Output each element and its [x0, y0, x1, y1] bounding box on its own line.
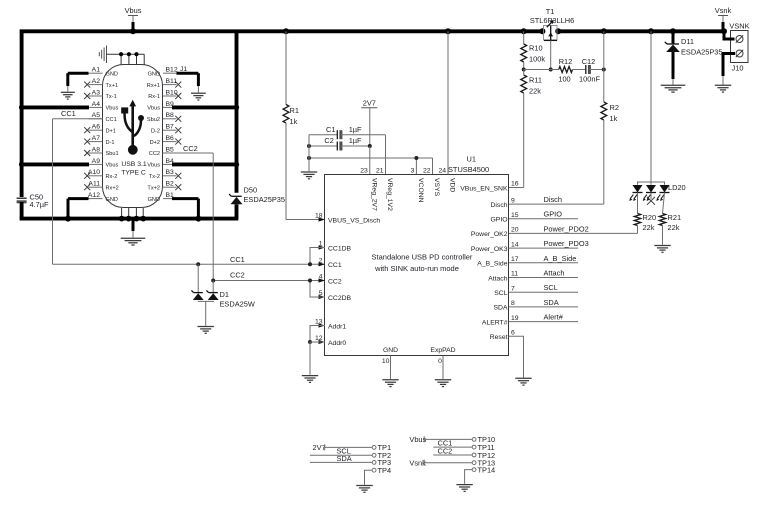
svg-text:CC1: CC1 [230, 255, 245, 264]
node C12/R2 junction [602, 68, 606, 72]
svg-text:C1: C1 [326, 125, 335, 134]
svg-text:Vsnk: Vsnk [715, 6, 732, 15]
wire J10 pin2 to ground [723, 54, 735, 77]
svg-text:B8: B8 [166, 112, 175, 119]
svg-text:GND: GND [383, 347, 398, 354]
J1 pin B7 lead [163, 129, 177, 131]
svg-text:A4: A4 [92, 101, 101, 108]
svg-text:CC1: CC1 [328, 262, 342, 269]
svg-text:D-1: D-1 [106, 140, 115, 146]
svg-text:14: 14 [511, 241, 519, 248]
ground at A1 [61, 92, 75, 99]
wire B4 Vbus to right rail [172, 162, 237, 166]
ground at R21 [654, 246, 670, 253]
capacitor C12 100nF [573, 69, 586, 71]
svg-text:Vbus: Vbus [125, 6, 142, 15]
svg-text:CC2: CC2 [149, 151, 160, 157]
svg-text:17: 17 [511, 256, 519, 263]
svg-text:VSNK: VSNK [729, 22, 749, 31]
svg-text:11: 11 [511, 271, 518, 278]
svg-text:D+1: D+1 [106, 128, 116, 134]
op-amp U1 STUSB4500 body [325, 175, 509, 356]
svg-text:VCONN: VCONN [417, 178, 424, 203]
LED LD20 (triple) [650, 31, 652, 182]
test point TP2 [372, 453, 376, 457]
J1 pin A9 lead [89, 163, 103, 165]
svg-text:Addr0: Addr0 [328, 340, 346, 347]
wire TP1 [325, 446, 373, 448]
ground at TP4 [356, 486, 372, 493]
svg-text:C12: C12 [582, 57, 596, 66]
wire Vbus top rail (left segment) [20, 29, 543, 33]
wire U1 pin8 SDA stub [509, 306, 578, 308]
svg-text:T1: T1 [546, 7, 555, 16]
svg-text:A6: A6 [92, 124, 101, 131]
test point TP11 [472, 445, 476, 449]
svg-text:with SINK auto-run mode: with SINK auto-run mode [374, 264, 459, 273]
svg-text:6: 6 [511, 330, 515, 337]
J1 pin B12 lead [163, 72, 177, 74]
node C-row junctions [307, 144, 311, 148]
wire A12 GND to bottom rail [68, 197, 89, 200]
wire U1 pin9 Disch to R2 [509, 203, 604, 205]
resistor R20 22k [637, 193, 639, 214]
svg-text:Attach: Attach [544, 269, 565, 278]
wire A1 GND to ground [68, 72, 89, 75]
wire VCONN/VSYS ground row [309, 157, 433, 159]
wire U1 pin17 A_B_Side stub [509, 262, 578, 264]
test point TP12 [472, 453, 476, 457]
test point TP3 [372, 461, 376, 465]
no-connect on middle LED [650, 193, 652, 200]
svg-text:21: 21 [376, 167, 384, 174]
svg-text:Vsnk: Vsnk [409, 458, 426, 467]
test point TP13 [472, 461, 476, 465]
svg-text:Tx+2: Tx+2 [147, 185, 160, 191]
J1 pin A10 lead [89, 175, 103, 177]
resistor R11 22k [521, 75, 527, 93]
svg-text:GND: GND [106, 71, 118, 77]
svg-text:U1: U1 [467, 155, 476, 164]
J1 pin B9 lead [163, 106, 177, 108]
wire TP13 [424, 462, 472, 464]
svg-text:D50: D50 [244, 186, 258, 195]
svg-text:GND: GND [148, 197, 160, 203]
J1 pin A7 lead [89, 141, 103, 143]
USB trident icon [121, 100, 144, 155]
svg-text:22k: 22k [668, 223, 680, 232]
svg-text:3: 3 [411, 167, 415, 174]
svg-text:D+2: D+2 [150, 140, 160, 146]
diode D50 ESDA25P35 [229, 194, 244, 204]
svg-text:15: 15 [511, 212, 519, 219]
wire Vbus top rail (right segment) [558, 29, 724, 33]
svg-text:8: 8 [511, 300, 515, 307]
svg-text:22k: 22k [643, 223, 655, 232]
svg-text:A9: A9 [92, 158, 101, 165]
J1 pin B2 lead [163, 186, 177, 188]
svg-text:Rx-2: Rx-2 [106, 174, 118, 180]
wire Vbus rail to J10 pin1 [724, 31, 735, 39]
J1 pin B3 lead [163, 175, 177, 177]
wire TP11 (CC1) [433, 446, 472, 448]
svg-text:Rx+1: Rx+1 [147, 83, 160, 89]
svg-text:A12: A12 [88, 192, 100, 199]
wire T1 gate [550, 40, 552, 69]
svg-text:Power_PDO3: Power_PDO3 [544, 239, 589, 248]
wire TP3 (SDA) [310, 461, 372, 463]
J1 pin names (B side) [147, 71, 160, 202]
wire U1 pin13 Addr1 branch [310, 326, 325, 343]
wire VReg_2V7 pin23 lead [369, 146, 371, 175]
node right rail junctions [234, 105, 239, 110]
svg-text:R21: R21 [668, 213, 682, 222]
J1 pin A4 lead [89, 106, 103, 108]
svg-text:9: 9 [511, 197, 515, 204]
J1 pin B10 lead [163, 95, 177, 97]
svg-text:0: 0 [438, 358, 442, 365]
svg-text:D11: D11 [681, 37, 694, 46]
svg-text:VReg_1V2: VReg_1V2 [386, 178, 393, 211]
test point TP1 [372, 446, 376, 450]
svg-text:1µF: 1µF [349, 125, 362, 134]
svg-text:USB 3.1: USB 3.1 [121, 161, 147, 168]
ground at Addr0 [302, 376, 318, 383]
J1 pin A2 lead [89, 84, 103, 86]
svg-text:19: 19 [511, 315, 519, 322]
wire U1 pin12 Addr0 to ground [310, 341, 325, 343]
wire U1 pin6 Reset to ground [509, 336, 524, 377]
wire TP14 to ground [465, 470, 473, 484]
U1 left pin arrows [319, 217, 326, 344]
svg-text:B5: B5 [166, 146, 175, 153]
wire Vbus right rail [235, 30, 239, 193]
ground at C1/C2 [301, 172, 317, 179]
wire U1 pin15 GPIO stub [509, 218, 578, 220]
svg-text:Addr1: Addr1 [328, 323, 346, 330]
svg-text:B12: B12 [166, 67, 178, 74]
resistor R1 1k [285, 31, 287, 104]
svg-text:Tx-1: Tx-1 [106, 94, 117, 100]
J1 shield pins (bottom) [121, 208, 123, 219]
svg-text:GND: GND [148, 71, 160, 77]
svg-text:Rx+2: Rx+2 [106, 185, 119, 191]
svg-text:100nF: 100nF [579, 75, 600, 84]
svg-text:R20: R20 [643, 213, 657, 222]
svg-text:Tx+1: Tx+1 [106, 83, 119, 89]
svg-text:TP14: TP14 [478, 465, 496, 474]
svg-text:B7: B7 [166, 124, 175, 131]
svg-text:Disch: Disch [544, 195, 562, 204]
svg-text:A5: A5 [92, 112, 101, 119]
svg-text:Rx-1: Rx-1 [148, 94, 160, 100]
ground at U1 GND [382, 380, 398, 387]
test point TP14 [472, 468, 476, 472]
svg-text:Tx-2: Tx-2 [149, 174, 160, 180]
svg-text:Reset: Reset [490, 334, 508, 341]
wire U1 pin11 Attach stub [509, 277, 578, 279]
svg-text:CC2: CC2 [183, 144, 198, 153]
svg-text:B10: B10 [166, 89, 178, 96]
wire U1 pin5 CC2DB branch [310, 281, 325, 298]
J1 shield pins (top) [120, 54, 122, 64]
wire A4 Vbus to left rail [22, 105, 89, 109]
svg-text:A11: A11 [88, 181, 100, 188]
resistor R10 100k [523, 31, 525, 44]
ground at B12 [191, 93, 206, 100]
svg-text:Attach: Attach [488, 275, 507, 282]
svg-text:STUSB4500: STUSB4500 [448, 165, 489, 174]
capacitor C50 4.7uF [17, 197, 27, 199]
J1 pin A11 lead [89, 186, 103, 188]
svg-text:10: 10 [382, 358, 390, 365]
diode D11 ESDA25P35 [672, 31, 675, 44]
svg-text:VBus_EN_SNK: VBus_EN_SNK [460, 185, 508, 192]
svg-text:ALERT#: ALERT# [482, 319, 508, 326]
svg-text:Alert#: Alert# [544, 313, 564, 322]
node left rail junctions [19, 105, 24, 110]
test point TP4 [372, 468, 376, 472]
ground at J1 GND rail [121, 238, 146, 245]
node Vbus rail junctions [283, 28, 289, 34]
svg-text:4.7µF: 4.7µF [30, 200, 50, 209]
node gate junction [522, 68, 526, 72]
svg-text:R11: R11 [529, 76, 542, 85]
svg-text:ESDA25P35: ESDA25P35 [244, 195, 286, 204]
svg-text:SCL: SCL [494, 290, 507, 297]
svg-text:1µF: 1µF [349, 136, 362, 145]
J1 pin A3 lead [89, 95, 103, 97]
svg-text:TYPE C: TYPE C [121, 170, 146, 177]
wire GND bottom rail [20, 217, 239, 221]
svg-text:VReg_2V7: VReg_2V7 [370, 178, 377, 211]
wire U1 pin7 SCL stub [509, 291, 578, 293]
svg-text:100k: 100k [529, 55, 545, 64]
J1 pin A8 lead [89, 152, 103, 154]
svg-text:7: 7 [511, 285, 515, 292]
svg-text:A_B_Side: A_B_Side [544, 254, 577, 263]
svg-text:Disch: Disch [491, 202, 508, 209]
wire U1 pin19 ALERT# stub [509, 321, 578, 323]
svg-text:1k: 1k [610, 114, 618, 123]
svg-text:24: 24 [438, 167, 446, 174]
svg-text:Standalone USB PD controller: Standalone USB PD controller [372, 252, 473, 261]
U1 right pin labels [460, 181, 588, 341]
wire TP10 [424, 438, 472, 440]
svg-text:R2: R2 [610, 103, 619, 112]
svg-text:GND: GND [106, 197, 118, 203]
wire B1 GND to bottom rail [172, 197, 198, 200]
J1 pin A6 lead [89, 129, 103, 131]
ground at D11 [661, 85, 686, 92]
wire Vbus left rail [20, 30, 24, 198]
J1 pin B8 lead [163, 118, 177, 120]
svg-text:CC2DB: CC2DB [328, 295, 352, 302]
svg-text:D1: D1 [220, 290, 229, 299]
svg-text:A2: A2 [92, 78, 101, 85]
wire gate node row [524, 69, 559, 71]
capacitor C1 1uF [309, 134, 337, 136]
svg-text:2V7: 2V7 [363, 99, 376, 108]
svg-text:R12: R12 [559, 57, 573, 66]
svg-text:B6: B6 [166, 135, 175, 142]
svg-text:Power_OK3: Power_OK3 [471, 246, 508, 253]
wire C1/C2 ground stem [308, 135, 310, 172]
svg-text:Power_PDO2: Power_PDO2 [544, 224, 589, 233]
svg-text:1k: 1k [290, 117, 298, 126]
svg-text:CC1: CC1 [106, 117, 117, 123]
J1 pin names (A side) [106, 71, 119, 202]
svg-text:ESDA25W: ESDA25W [220, 299, 255, 308]
J1 pin B5 lead [163, 152, 177, 154]
J1 pin B11 lead [163, 84, 177, 86]
wire U1 pin16 VBus_EN_SNK [509, 187, 524, 189]
wire U1 pin14 Power_PDO3 stub [509, 247, 578, 249]
connector J1 body (USB Type-C) [103, 65, 163, 208]
svg-text:VBUS_VS_Disch: VBUS_VS_Disch [328, 217, 380, 224]
capacitor C2 1uF [309, 145, 337, 147]
svg-text:R10: R10 [529, 44, 543, 53]
svg-text:B2: B2 [166, 181, 175, 188]
svg-text:Vbus: Vbus [147, 106, 160, 112]
U1 left pin labels [315, 213, 380, 347]
svg-text:22k: 22k [529, 87, 541, 96]
svg-text:Vbus: Vbus [147, 163, 160, 169]
J1 pin A12 lead [89, 198, 103, 200]
svg-text:16: 16 [511, 181, 519, 188]
svg-text:SDA: SDA [337, 454, 352, 463]
J1 pin A5 lead [89, 118, 103, 120]
svg-text:20: 20 [511, 227, 519, 234]
svg-text:A8: A8 [92, 146, 101, 153]
svg-text:R1: R1 [290, 106, 299, 115]
svg-text:C2: C2 [324, 136, 333, 145]
wire U1 pin1 CC1DB branch [310, 248, 325, 265]
svg-text:VSYS: VSYS [433, 178, 440, 197]
svg-text:22: 22 [423, 167, 431, 174]
test point TP10 [472, 438, 476, 442]
resistor R21 22k [663, 193, 665, 214]
svg-text:SDA: SDA [544, 298, 559, 307]
svg-text:Power_OK2: Power_OK2 [471, 231, 508, 238]
svg-text:LD20: LD20 [668, 183, 686, 192]
wire B9 Vbus to right rail [172, 105, 237, 109]
svg-text:SCL: SCL [544, 283, 558, 292]
svg-text:ExpPAD: ExpPAD [430, 347, 455, 354]
wire TP12 (CC2) [433, 454, 472, 456]
svg-text:J10: J10 [732, 64, 744, 73]
wire VDD pin24 to Vbus rail [447, 31, 449, 174]
wire A9 Vbus to left rail [22, 162, 89, 166]
svg-text:A7: A7 [92, 135, 101, 142]
svg-text:A1: A1 [92, 67, 101, 74]
svg-text:Vbus: Vbus [106, 106, 119, 112]
resistor R12 100 [559, 67, 573, 73]
wire U1 pin18 VBUS_VS_Disch [286, 219, 325, 221]
svg-text:CC2: CC2 [230, 270, 245, 279]
diode D1 ESDA25W (dual) [196, 262, 200, 266]
svg-text:100: 100 [558, 75, 570, 84]
wire Vbus to R2 column [603, 31, 605, 69]
J1 pin A1 lead [89, 72, 103, 74]
svg-text:D-2: D-2 [151, 128, 160, 134]
svg-text:A3: A3 [92, 89, 101, 96]
svg-text:GPIO: GPIO [491, 217, 508, 224]
svg-text:VDD: VDD [449, 178, 456, 192]
wire B12 GND to ground [177, 72, 199, 75]
resistor R2 1k [603, 70, 605, 103]
svg-text:B3: B3 [166, 169, 175, 176]
svg-text:CC2: CC2 [438, 446, 453, 455]
svg-text:Sbu2: Sbu2 [147, 117, 160, 123]
wire bottom rail to ground [132, 219, 135, 231]
svg-text:CC2: CC2 [328, 278, 342, 285]
svg-text:2V7: 2V7 [313, 443, 326, 452]
J1 pin B1 lead [163, 198, 177, 200]
svg-text:Vbus: Vbus [106, 163, 119, 169]
chassis ground (J1 shield) [99, 46, 106, 64]
ground at D1 [198, 327, 214, 334]
wire TP4 to ground [365, 470, 373, 485]
svg-text:Sbu1: Sbu1 [106, 151, 119, 157]
J1 pin B6 lead [163, 141, 177, 143]
wire CC2 (B5 to U1 pin 4) [163, 152, 213, 154]
ground at TP14 [456, 485, 472, 492]
wire U1 pin20 Power_PDO2 to R20 [509, 232, 638, 234]
svg-text:23: 23 [360, 167, 368, 174]
svg-text:TP4: TP4 [378, 466, 392, 475]
J1 pin B4 lead [163, 163, 177, 165]
ground at J10 [715, 85, 731, 92]
svg-text:CC1: CC1 [61, 109, 76, 118]
svg-text:CC1DB: CC1DB [328, 245, 352, 252]
wire TP2 (SCL) [310, 454, 372, 456]
wire CC1 (A5 to U1 pin 2) [53, 118, 103, 120]
svg-text:GPIO: GPIO [544, 210, 563, 219]
ground at Reset [515, 378, 531, 385]
svg-text:A_B_Side: A_B_Side [477, 261, 507, 268]
svg-text:ESDA25P35: ESDA25P35 [681, 48, 723, 57]
svg-text:STL6P3LLH6: STL6P3LLH6 [530, 16, 574, 25]
svg-text:SDA: SDA [494, 305, 508, 312]
ground at ExpPAD [435, 380, 451, 387]
